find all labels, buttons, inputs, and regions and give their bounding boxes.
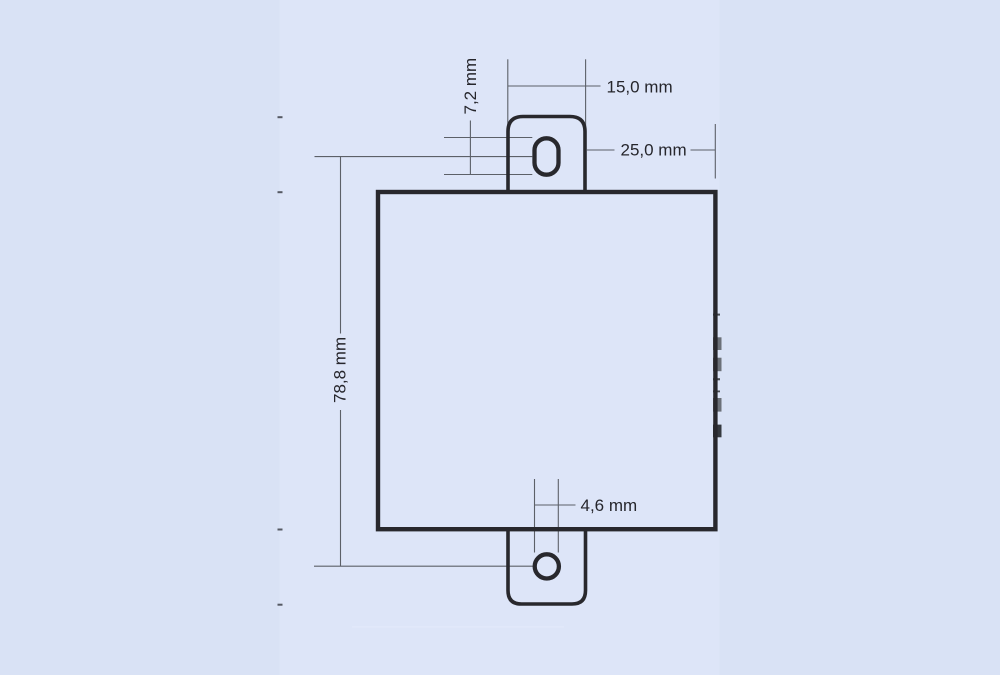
svg-text:15,0 mm: 15,0 mm — [607, 77, 673, 96]
svg-text:7,2 mm: 7,2 mm — [461, 58, 480, 115]
svg-text:4,6 mm: 4,6 mm — [581, 496, 638, 515]
svg-text:25,0 mm: 25,0 mm — [621, 141, 687, 160]
svg-text:78,8 mm: 78,8 mm — [331, 337, 350, 403]
